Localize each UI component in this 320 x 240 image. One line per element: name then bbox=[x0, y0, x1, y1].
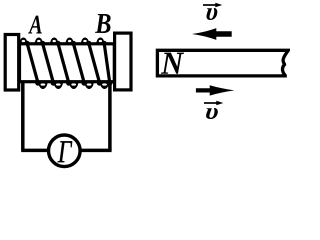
wire: right lead, vertical bbox=[108, 83, 112, 150]
coil winding turn 3: top junction dot bbox=[55, 41, 60, 46]
vector bar of bottom v label bbox=[204, 102, 220, 104]
coil winding turn 2: bottom junction dot bbox=[51, 80, 56, 85]
coil winding turn 1: top junction dot bbox=[25, 41, 30, 46]
velocity arrow bottom (thick, pointing right) bbox=[196, 85, 235, 95]
coil winding turn 5: bottom back-loop arc bbox=[100, 81, 110, 89]
coil winding turn 5: front diagonal wire bbox=[89, 43, 100, 81]
label A (coil terminal A) bbox=[28, 16, 42, 34]
galvanometer body (circle) bbox=[49, 135, 81, 167]
coil winding turn 3: bottom junction dot bbox=[66, 80, 71, 85]
vector arrowhead of top v label bbox=[215, 3, 222, 7]
coil winding turn 5: top junction dot bbox=[86, 41, 91, 46]
left flange of coil frame bbox=[5, 35, 19, 91]
wire: bottom-right horizontal from galvanometer bbox=[79, 149, 112, 153]
coil winding turn 2: top back-loop arc bbox=[35, 37, 43, 44]
vector arrowhead of bottom v label bbox=[216, 101, 223, 105]
coil winding turn 2: front diagonal wire bbox=[43, 43, 54, 81]
coil winding turn 5: bottom junction dot bbox=[97, 80, 102, 85]
label v top (italic v) bbox=[206, 8, 218, 20]
coil winding turn 1: bottom back-loop arc bbox=[38, 81, 48, 89]
coil winding turn 3: top back-loop arc bbox=[50, 37, 58, 44]
label B (coil terminal B) bbox=[95, 14, 111, 33]
coil winding turn 6: top junction dot bbox=[102, 41, 107, 46]
coil core body (solenoid frame tube) bbox=[20, 44, 115, 82]
wire: bottom-left horizontal to galvanometer bbox=[21, 149, 49, 153]
coil winding turn 1: front diagonal wire bbox=[27, 43, 38, 81]
coil winding turn 6: front diagonal wire bbox=[104, 43, 109, 81]
coil winding turn 4: bottom junction dot bbox=[81, 80, 86, 85]
galvanometer label Γ bbox=[58, 141, 73, 162]
coil winding turn 1: top back-loop arc bbox=[19, 38, 27, 45]
coil winding turn 6: top back-loop arc bbox=[96, 37, 104, 44]
coil winding turn 5: top back-loop arc bbox=[81, 38, 89, 45]
label v bottom (italic v) bbox=[205, 108, 218, 119]
coil winding turn 4: top junction dot bbox=[71, 41, 76, 46]
coil winding turn 3: bottom back-loop arc bbox=[69, 81, 79, 89]
velocity arrow top (thick, pointing left) bbox=[192, 28, 232, 40]
magnet bar (north pole, broken right end) bbox=[157, 50, 288, 76]
coil winding turn 4: front diagonal wire bbox=[73, 43, 84, 81]
coil winding turn 2: bottom back-loop arc bbox=[54, 81, 64, 89]
coil winding turn 4: top back-loop arc bbox=[65, 37, 73, 44]
wire: left lead, vertical bbox=[21, 83, 25, 150]
coil winding turn 3: front diagonal wire bbox=[58, 43, 69, 81]
coil winding turn 6: bottom junction dot bbox=[107, 80, 112, 85]
coil winding turn 2: top junction dot bbox=[40, 41, 45, 46]
coil winding turn 1: bottom junction dot bbox=[35, 80, 40, 85]
vector bar of top v label bbox=[203, 4, 219, 6]
right flange of coil frame bbox=[115, 33, 131, 90]
coil winding turn 6: bottom back-loop arc bbox=[115, 81, 125, 89]
magnet pole label N bbox=[161, 53, 184, 74]
coil winding turn 4: bottom back-loop arc bbox=[84, 81, 94, 89]
